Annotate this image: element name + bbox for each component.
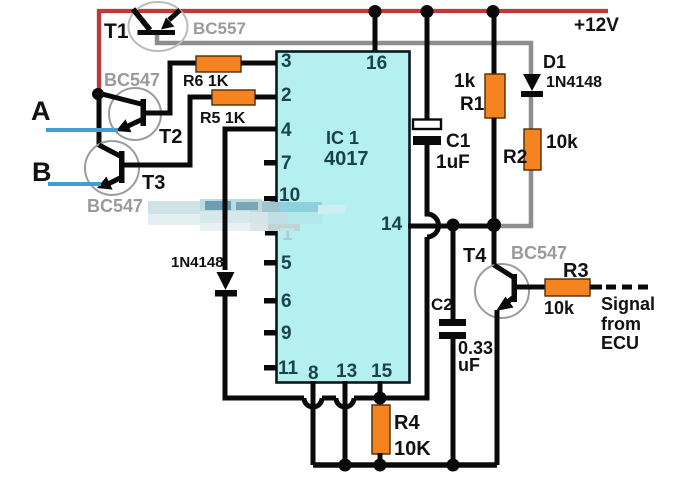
svg-text:10k: 10k: [546, 132, 578, 153]
wire input B: [48, 182, 101, 186]
svg-text:from: from: [601, 314, 641, 334]
pin 6 stub: [264, 298, 277, 304]
svg-text:1N4148: 1N4148: [171, 254, 224, 271]
junction R4 rail: [374, 459, 387, 472]
wire hop under pin 13: [336, 398, 354, 407]
pin 5 stub: [264, 260, 277, 266]
svg-text:R2: R2: [503, 147, 527, 168]
svg-text:R6 1K: R6 1K: [183, 73, 229, 90]
wire diode to bottom node: [225, 296, 304, 398]
transistor T2 BC547: [98, 63, 196, 132]
svg-text:5: 5: [281, 253, 292, 274]
transistor T1 BC557: [133, 9, 180, 35]
wire rail to C1: [425, 12, 430, 120]
junction C1 rail: [421, 5, 434, 18]
svg-text:B: B: [32, 157, 52, 187]
wire T4 base to R3: [517, 285, 545, 290]
wire pin4 to diode: [225, 129, 276, 270]
pin 10 stub: [264, 196, 277, 202]
transistor T3 BC547: [97, 97, 212, 190]
IC1 4017 value label: [324, 128, 369, 170]
transistor T3 circle: [85, 141, 139, 195]
wire node to C2: [451, 225, 456, 320]
svg-text:T2: T2: [159, 126, 182, 148]
svg-text:2: 2: [281, 85, 292, 106]
wire pin13 to rail: [343, 381, 348, 465]
svg-text:4017: 4017: [324, 148, 369, 170]
pin 9 stub: [264, 330, 277, 336]
junction pin16 rail: [369, 5, 382, 18]
wire base node down to T3: [97, 94, 102, 147]
svg-text:BC547: BC547: [511, 243, 567, 263]
wire bottom rail: [313, 462, 497, 468]
svg-text:6: 6: [281, 291, 292, 312]
resistor R1: [485, 74, 505, 118]
svg-text:Signal: Signal: [601, 294, 655, 314]
junction R1 rail: [487, 5, 500, 18]
wire R4 to rail: [378, 453, 383, 465]
wire pin 14: [408, 224, 494, 229]
label Signal from ECU: [601, 294, 655, 353]
resistor R5: [212, 90, 255, 105]
wire pin16 to rail: [373, 12, 378, 51]
wire R2 to node gray: [500, 169, 531, 226]
svg-text:10K: 10K: [394, 438, 431, 460]
transistor T4 BC547: [494, 265, 517, 311]
transistor T2 circle: [109, 88, 161, 140]
wire between hops: [322, 396, 336, 401]
pin 7 stub: [264, 160, 277, 166]
wire R3 dashed signal: [590, 285, 648, 290]
capacitor C2: [439, 319, 466, 339]
resistor R4: [372, 405, 390, 454]
svg-text:C2: C2: [431, 295, 453, 314]
wire input A: [46, 128, 118, 132]
wire node to C1 bottom: [354, 237, 427, 398]
diode 1N4148 left: [215, 272, 237, 297]
capacitor C1: [413, 120, 441, 146]
svg-text:15: 15: [371, 361, 393, 382]
wire T4 emitter to rail: [495, 310, 500, 465]
wire R1 to node: [492, 118, 497, 226]
svg-text:R1: R1: [460, 94, 485, 115]
svg-text:BC547: BC547: [87, 196, 143, 216]
watermark: [148, 199, 345, 240]
junction pin13 rail: [339, 459, 352, 472]
svg-text:D1: D1: [543, 52, 566, 72]
svg-text:BC547: BC547: [104, 70, 160, 90]
svg-text:R4: R4: [394, 412, 420, 434]
svg-text:T1: T1: [104, 20, 129, 43]
junction C2 rail: [447, 459, 460, 472]
junction C2 node: [447, 219, 460, 232]
svg-text:R5 1K: R5 1K: [200, 110, 246, 127]
svg-text:3: 3: [281, 51, 292, 72]
IC U1 4017 body: [277, 52, 410, 383]
svg-text:13: 13: [336, 361, 357, 382]
wire +12V red rail: [99, 11, 608, 93]
junction node bases: [92, 88, 104, 100]
svg-text:9: 9: [281, 323, 292, 344]
svg-text:8: 8: [308, 363, 319, 384]
resistor R6: [196, 56, 241, 72]
svg-text:uF: uF: [458, 355, 480, 375]
wire C1 lead hop over pin14 wire: [427, 145, 439, 237]
diode D1: [521, 74, 543, 97]
junction T4 node: [487, 218, 501, 232]
svg-text:C1: C1: [446, 131, 471, 152]
resistor R2: [524, 129, 541, 170]
svg-text:BC557: BC557: [193, 19, 246, 38]
svg-text:R3: R3: [563, 260, 589, 282]
svg-text:T3: T3: [142, 172, 165, 194]
svg-text:16: 16: [366, 53, 387, 74]
wire pin15 to R4: [378, 381, 383, 406]
svg-text:4: 4: [281, 120, 292, 141]
svg-text:1N4148: 1N4148: [546, 74, 602, 91]
wire hop under pin 8: [304, 398, 322, 407]
pin 1 stub: [265, 231, 277, 236]
wire C2 to rail: [451, 339, 456, 465]
svg-text:11: 11: [278, 358, 299, 379]
pin 11 stub: [264, 365, 277, 371]
svg-text:1k: 1k: [454, 71, 476, 92]
transistor T1 circle: [129, 2, 188, 51]
svg-text:7: 7: [281, 153, 292, 174]
svg-text:10k: 10k: [544, 298, 575, 318]
wire pin8 to rail: [311, 381, 316, 465]
wire R5 to pin2: [255, 95, 276, 100]
svg-text:+12V: +12V: [574, 15, 619, 36]
resistor R3: [545, 279, 590, 296]
transistor T4 circle: [475, 264, 529, 318]
svg-text:14: 14: [381, 214, 403, 235]
svg-text:T4: T4: [463, 245, 487, 267]
svg-text:ECU: ECU: [601, 333, 639, 353]
junction pin15 R4 node: [374, 392, 387, 405]
wire T4 collector: [492, 225, 497, 267]
wire T1 base to D1 gray: [157, 34, 531, 75]
svg-text:A: A: [31, 96, 51, 126]
svg-text:IC 1: IC 1: [326, 128, 359, 148]
wire rail to R1: [492, 12, 497, 75]
wire R6 to pin3: [241, 61, 276, 66]
wire D1 to R2 gray: [529, 92, 534, 130]
svg-text:1uF: 1uF: [436, 152, 470, 173]
